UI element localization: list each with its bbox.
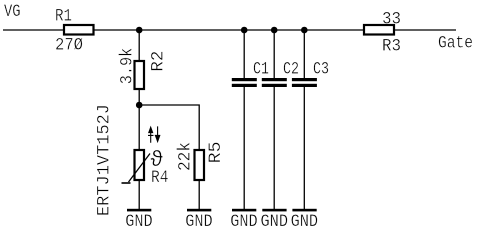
wire junction to R5 branch: [139, 105, 199, 150]
junction C2: [271, 27, 278, 34]
svg-text:ERTJ1VT152J: ERTJ1VT152J: [95, 104, 115, 216]
wire junction to R4: [138, 105, 140, 150]
thermistor R4 arrow up: [148, 127, 154, 142]
junction node: [136, 102, 143, 109]
thermistor R4 diagonal: [129, 154, 151, 183]
ground under C3: [292, 209, 316, 212]
svg-text:R1: R1: [55, 6, 72, 26]
capacitor C2: [261, 30, 300, 232]
svg-text:C2: C2: [283, 59, 299, 79]
svg-text:27Ø: 27Ø: [55, 35, 83, 55]
wire R1 to R3: [94, 29, 364, 31]
wire junction to R2: [138, 30, 140, 61]
ground under R4: [127, 209, 151, 212]
wire R2 to junction: [138, 89, 140, 105]
junction C3: [301, 27, 308, 34]
wire R3 to Gate: [394, 29, 456, 31]
svg-text:C3: C3: [313, 59, 329, 79]
svg-text:GND: GND: [261, 212, 289, 232]
thermistor R4: [135, 150, 145, 180]
svg-text:GND: GND: [125, 212, 153, 232]
C3 plates: [292, 78, 317, 81]
svg-text:VG: VG: [4, 2, 21, 22]
svg-text:GND: GND: [291, 212, 319, 232]
ground under R5: [187, 209, 211, 212]
wire C2 bottom: [273, 87, 275, 209]
wire R5 to GND: [198, 180, 200, 209]
thermistor R4 foot: [122, 182, 131, 184]
svg-text:GND: GND: [230, 212, 258, 232]
svg-text:C1: C1: [253, 59, 269, 79]
resistor R1: [64, 25, 94, 35]
wire C3 top: [303, 30, 305, 79]
resistor R3: [364, 25, 394, 35]
wire C1 bottom: [243, 87, 245, 209]
wire R4 to GND: [138, 180, 140, 209]
resistor R5: [195, 150, 205, 180]
capacitor C1: [230, 30, 269, 232]
resistor R2: [135, 61, 145, 89]
svg-text:3.9k: 3.9k: [118, 48, 138, 85]
wire C1 top: [243, 30, 245, 79]
svg-text:R2: R2: [148, 51, 168, 72]
thermistor R4 arrow down: [155, 126, 161, 141]
svg-text:Gate: Gate: [438, 33, 473, 53]
svg-text:R3: R3: [382, 36, 401, 56]
wire C2 top: [273, 30, 275, 79]
ground under C1: [232, 209, 256, 212]
wire C3 bottom: [303, 87, 305, 209]
svg-text:R4: R4: [151, 168, 169, 188]
C2 plates: [262, 78, 287, 81]
junction C1: [241, 27, 248, 34]
svg-text:R5: R5: [206, 141, 226, 163]
ground under C2: [262, 209, 286, 212]
capacitor C3: [291, 30, 329, 232]
svg-text:22k: 22k: [176, 142, 196, 171]
C1 plates: [232, 78, 257, 81]
wire VG to R1: [3, 29, 64, 31]
svg-text:GND: GND: [185, 212, 213, 232]
svg-text:33: 33: [382, 9, 401, 29]
junction at R2 top: [136, 27, 143, 34]
